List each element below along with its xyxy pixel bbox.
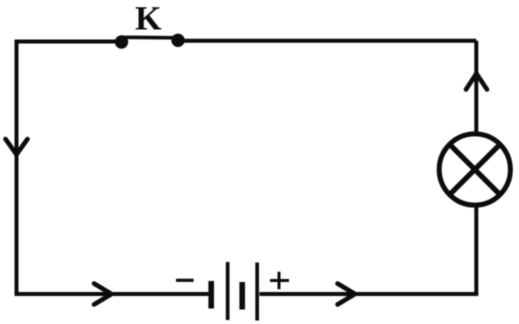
wire right vertical lower [474,206,478,294]
wire bottom-left segment [15,292,210,296]
battery: negative plate cell 1 (short thick) [208,281,214,309]
wire left vertical [15,40,19,295]
current arrow up (right wire) [466,74,487,90]
battery: negative plate cell 2 (short thick) [239,282,245,310]
lamp L: bulb circle [439,134,510,205]
label K [136,7,162,29]
wire top-left segment [17,40,119,44]
lamp L: cross diagonal 1 [450,145,500,195]
switch K: right contact dot [171,34,184,47]
current arrow right (bottom right wire) [338,284,356,305]
battery: positive plate cell 1 (long thin) [226,262,230,320]
wire right vertical upper [474,41,478,133]
wire bottom-right segment [260,292,479,296]
lamp L: cross diagonal 2 [450,145,500,195]
switch K: left contact dot [115,35,128,48]
label minus (battery negative) [176,279,194,282]
battery: positive plate cell 2 (long thin) [255,263,259,321]
label plus (battery positive) [270,272,289,290]
current arrow down (left wire) [6,139,28,155]
wire top-right segment [180,39,476,43]
switch K: closed blade bar [122,35,179,39]
current arrow right (bottom left wire) [94,284,112,305]
